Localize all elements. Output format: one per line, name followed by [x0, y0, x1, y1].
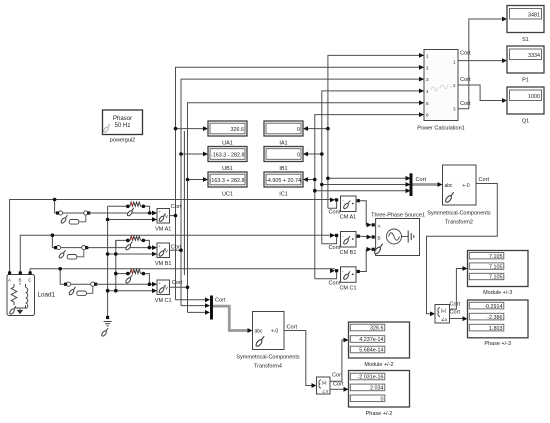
wire: mux3 in1 from IA	[328, 177, 407, 179]
svg-text:abc: abc	[255, 329, 264, 335]
svg-text:2.034: 2.034	[370, 386, 384, 392]
svg-text:CM A1: CM A1	[340, 215, 357, 221]
svg-text:powergui2: powergui2	[110, 138, 135, 144]
wire: IA1 tap	[305, 128, 328, 130]
svg-text:+-0: +-0	[271, 329, 279, 335]
wire: CM A1 signal out	[328, 202, 337, 209]
display Module +/-3	[468, 251, 529, 287]
svg-text:Load1: Load1	[38, 292, 56, 299]
wire: mux4 in1 from UA	[176, 299, 207, 301]
svg-text:Cort: Cort	[172, 280, 183, 286]
svg-text:3334: 3334	[528, 53, 540, 59]
wire: CM B1 to source B	[360, 235, 370, 238]
svg-text:Power Calculation1: Power Calculation1	[417, 126, 464, 132]
svg-text:-163.3 - 282.8: -163.3 - 282.8	[211, 153, 245, 159]
svg-text:2: 2	[426, 65, 429, 70]
svg-text:Cort: Cort	[332, 373, 343, 379]
breaker C	[64, 282, 97, 296]
svg-text:S1: S1	[522, 37, 529, 43]
svg-text:1000: 1000	[528, 94, 540, 100]
svg-text:-2.031e-16: -2.031e-16	[357, 375, 383, 381]
svg-text:VM C1: VM C1	[155, 298, 172, 304]
svg-text:1: 1	[453, 59, 456, 64]
svg-text:Cort: Cort	[460, 51, 471, 57]
three-phase source block	[367, 219, 420, 256]
svg-text:B: B	[378, 235, 381, 240]
svg-text:4: 4	[426, 89, 429, 94]
svg-text:Cort: Cort	[460, 101, 471, 107]
current measurement CM B1	[335, 232, 360, 248]
svg-text:|u|: |u|	[441, 308, 446, 313]
wire: current IB vertical bus	[322, 91, 424, 244]
arrow into IA1	[303, 126, 308, 131]
wire: row C main to VM C1	[96, 283, 155, 285]
svg-text:3: 3	[426, 77, 429, 82]
series RL branch A	[108, 202, 152, 217]
svg-text:Module +/-2: Module +/-2	[364, 362, 393, 368]
svg-text:∠u: ∠u	[322, 388, 329, 393]
wire: mag2 out to Module display	[330, 340, 345, 381]
arrow into power calc in4	[419, 89, 424, 94]
wire: mag3 out to Module display	[450, 269, 464, 310]
display Q1	[507, 87, 544, 114]
wire: phase C rail	[30, 269, 335, 272]
svg-text:Cort: Cort	[215, 298, 226, 304]
svg-text:Cort: Cort	[171, 204, 182, 210]
display UB1	[208, 147, 247, 162]
svg-text:326.6: 326.6	[231, 127, 245, 133]
svg-text:UA1: UA1	[222, 141, 233, 147]
wire: row A main to VM A1	[89, 212, 153, 214]
svg-text:5: 5	[426, 101, 429, 106]
arrow into UA1	[203, 126, 208, 131]
transform block U2	[443, 165, 477, 205]
svg-text:Q1: Q1	[522, 119, 529, 125]
display Phase +/-2	[349, 371, 410, 408]
wire: mux4 thick output	[213, 306, 248, 330]
wire: breaker branch B drop	[52, 235, 56, 247]
wire: angle3 out to Phase display	[450, 318, 464, 320]
wire: mux3 in2 from IB	[322, 184, 407, 186]
svg-text:P1: P1	[522, 78, 529, 84]
arrow into power calc in6	[419, 112, 424, 117]
wire: mux3 thick output	[413, 183, 439, 186]
svg-text:Phasor: Phasor	[113, 116, 132, 122]
svg-text:Phase +/-2: Phase +/-2	[366, 411, 393, 417]
junction dots on buses	[174, 127, 178, 131]
svg-text:A: A	[8, 278, 11, 283]
svg-text:abc: abc	[445, 183, 454, 189]
svg-text:Cort: Cort	[287, 325, 298, 331]
wire: mux3 in3 from IC	[315, 190, 407, 192]
wire: IC1 tap	[305, 179, 315, 181]
svg-text:Cont: Cont	[329, 280, 341, 286]
wire: CM A1 to source A	[360, 201, 370, 225]
svg-text:7.105: 7.105	[489, 264, 503, 270]
svg-text:+-0: +-0	[462, 183, 470, 189]
svg-text:VM B1: VM B1	[155, 261, 172, 267]
series RL branch C	[114, 269, 151, 286]
display UC1	[208, 172, 247, 187]
mag/angle block U3	[435, 305, 450, 324]
wire: RL-B neutral vertical	[115, 240, 117, 290]
wire: VM B1 output	[170, 249, 182, 251]
svg-text:IB1: IB1	[279, 166, 287, 172]
mux Mux4	[210, 296, 213, 320]
powergui block	[103, 110, 143, 135]
wire: VM A1 output	[170, 215, 176, 217]
power calculation block	[424, 50, 458, 121]
svg-text:Cort: Cort	[416, 177, 427, 183]
svg-text:IC1: IC1	[279, 192, 288, 198]
svg-text:5.684e-14: 5.684e-14	[359, 348, 383, 354]
wire: row B main to VM B1	[87, 247, 153, 249]
display IC1	[264, 172, 303, 187]
wire: VM C1 output	[170, 286, 188, 288]
svg-text:50 Hz: 50 Hz	[115, 123, 131, 129]
transform block U4	[253, 312, 285, 350]
svg-text:1: 1	[426, 53, 429, 58]
svg-text:UB1: UB1	[222, 166, 233, 172]
wire: breaker branch C drop	[60, 269, 66, 284]
wire: phase B rail	[20, 235, 335, 272]
wire: neutral bus vertical	[107, 206, 109, 316]
arrow into UB1	[203, 152, 208, 157]
svg-text:CM B1: CM B1	[340, 250, 357, 256]
wire: voltage UB vertical bus	[181, 79, 424, 306]
wire: row C lower (VM minus)	[108, 290, 155, 292]
display Module +/-2	[349, 322, 410, 358]
wire: CM C1 to source C	[360, 249, 370, 271]
svg-text:Cort: Cort	[333, 382, 344, 388]
svg-text:0: 0	[297, 127, 300, 133]
wire: row A lower (VM minus)	[108, 219, 153, 221]
wire: voltage UC vertical bus	[188, 103, 425, 313]
display S1	[507, 6, 544, 33]
wire: phase A rail	[10, 200, 335, 273]
voltage measurement VM A1	[152, 209, 170, 224]
display UA1	[208, 121, 247, 136]
svg-text:Symmetrical-Components: Symmetrical-Components	[427, 211, 491, 217]
svg-text:Transform4: Transform4	[254, 364, 282, 370]
wire: CM B1 signal out	[322, 237, 337, 244]
wire: UA1 tap	[176, 128, 207, 130]
svg-text:Cort: Cort	[450, 310, 461, 316]
svg-text:3: 3	[453, 107, 456, 112]
svg-text:B: B	[19, 278, 22, 283]
wire: angle2 out to Phase display	[330, 388, 345, 390]
arrow into power calc in2	[419, 65, 424, 70]
svg-text:Symmetrical-Components: Symmetrical-Components	[236, 355, 300, 361]
svg-text:IA1: IA1	[279, 141, 287, 147]
svg-text:7.105: 7.105	[489, 275, 503, 281]
arrow into UC1	[203, 177, 208, 182]
wire: transform2 out to mag/angle3	[427, 184, 498, 314]
svg-text:Three-Phase Source1: Three-Phase Source1	[371, 213, 425, 219]
wire: transform4 out to mag/angle2	[284, 331, 312, 386]
breaker A	[56, 211, 90, 224]
wire: IB1 tap	[305, 153, 322, 155]
ground block	[101, 316, 112, 337]
svg-text:∠u: ∠u	[441, 317, 448, 322]
display IA1	[264, 121, 303, 136]
svg-text:CM C1: CM C1	[339, 285, 356, 291]
wire: current IA vertical bus	[328, 55, 424, 208]
display Phase +/-3	[468, 300, 529, 338]
load block Load1	[7, 271, 35, 315]
display P1	[507, 46, 544, 73]
wire: extra vertical bus segment	[183, 131, 185, 275]
svg-text:Transform2: Transform2	[445, 220, 473, 226]
svg-text:Phase +/-3: Phase +/-3	[484, 341, 511, 347]
wire: voltage UA vertical bus	[176, 67, 425, 299]
current measurement CM C1	[335, 267, 360, 283]
svg-text:Module +/-3: Module +/-3	[483, 290, 512, 296]
svg-text:7.105: 7.105	[489, 254, 503, 260]
wire: row B lower (VM minus)	[108, 253, 153, 255]
svg-text:1.803: 1.803	[489, 326, 503, 332]
breaker B	[54, 246, 88, 260]
svg-text:Cont: Cont	[329, 245, 341, 251]
arrow into power calc in1	[419, 53, 424, 58]
svg-text:-0.2914: -0.2914	[484, 304, 502, 310]
wire: out2 to Q1	[458, 85, 503, 101]
wire: mux4 in2 from UB	[181, 305, 207, 307]
current measurement CM A1	[335, 196, 360, 212]
wire: out1 to P1	[458, 60, 503, 62]
svg-text:4.237e-14: 4.237e-14	[359, 337, 383, 343]
voltage measurement VM C1	[152, 280, 170, 295]
svg-text:|u|: |u|	[322, 380, 327, 385]
svg-text:2: 2	[453, 83, 456, 88]
svg-text:UC1: UC1	[222, 192, 233, 198]
voltage measurement VM B1	[152, 243, 170, 258]
svg-text:-4.905 + 20.74: -4.905 + 20.74	[266, 178, 301, 184]
svg-text:-2.386: -2.386	[487, 315, 502, 321]
svg-text:-163.3 + 282.8: -163.3 + 282.8	[210, 178, 245, 184]
display IB1	[264, 147, 303, 162]
svg-text:Cort: Cort	[450, 302, 461, 308]
arrow into power calc in5	[419, 100, 424, 105]
arrow into power calc in3	[419, 77, 424, 82]
arrow into IC1	[303, 177, 308, 182]
wire: out3 to S1	[458, 19, 503, 109]
wire: UB1 tap	[181, 153, 206, 155]
svg-text:Cort: Cort	[479, 177, 490, 183]
wire: mux4 in3 from UC	[188, 311, 207, 313]
svg-text:6: 6	[426, 113, 429, 118]
svg-text:326.6: 326.6	[370, 326, 384, 332]
wire: UC1 tap	[188, 179, 207, 181]
wire: CM C1 signal out	[315, 272, 337, 279]
svg-text:3481: 3481	[528, 13, 540, 19]
svg-text:C: C	[28, 278, 31, 283]
wire: breaker branch A drop	[55, 200, 58, 214]
arrow into IB1	[303, 152, 308, 157]
svg-text:0: 0	[381, 397, 384, 403]
mag/angle block U5	[317, 377, 331, 394]
svg-text:VM A1: VM A1	[155, 227, 171, 233]
svg-text:Cort: Cort	[460, 77, 471, 83]
svg-text:Cont: Cont	[329, 210, 341, 216]
series RL branch B	[116, 236, 151, 251]
mux Mux3	[410, 173, 413, 196]
wire: current IC vertical bus	[315, 115, 424, 279]
svg-text:0: 0	[297, 153, 300, 159]
